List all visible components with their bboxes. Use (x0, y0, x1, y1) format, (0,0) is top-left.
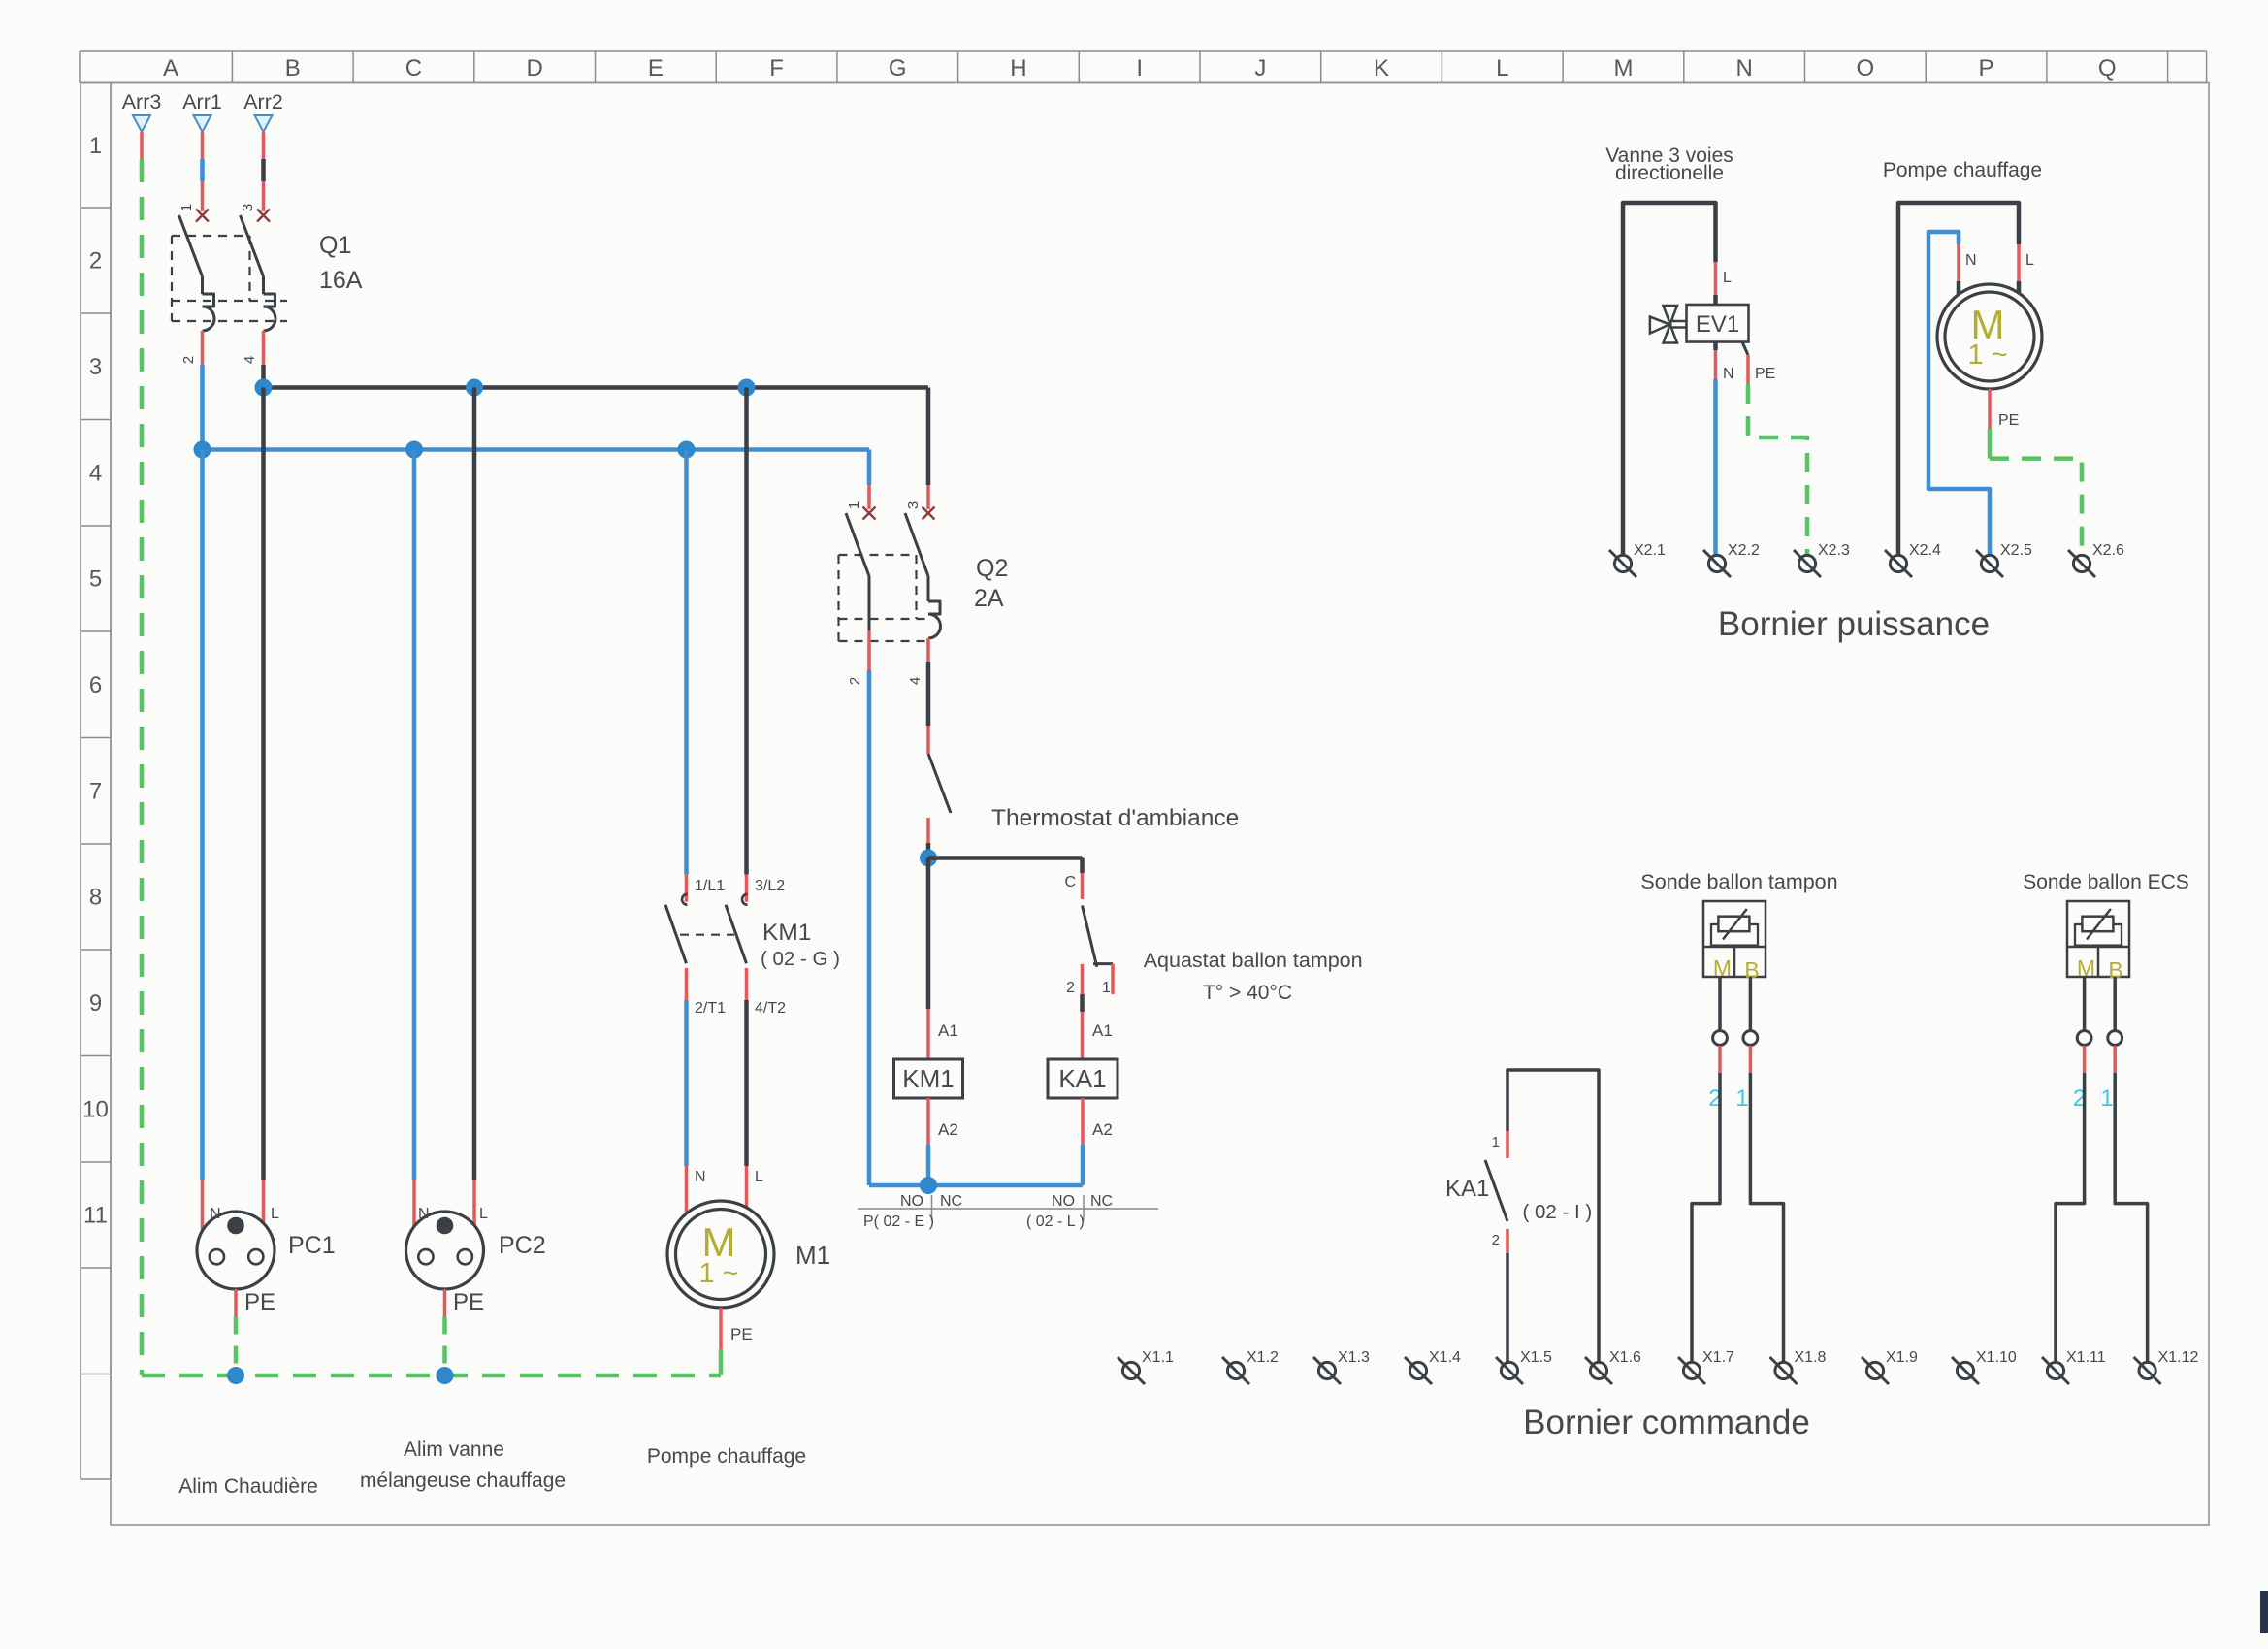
junction dot blue bus A (194, 441, 211, 458)
green PE bus bottom (142, 1374, 721, 1378)
terminal X2.4 (1885, 542, 1941, 577)
junction dot blue bus C (406, 441, 423, 458)
wire junction to aquastat C (928, 858, 1083, 900)
wire L drop to PC1 (261, 388, 266, 1231)
blue neutral bus (203, 447, 870, 452)
svg-text:L: L (1723, 270, 1732, 286)
svg-text:K: K (1374, 55, 1389, 81)
wire L drop to PC2 (472, 388, 477, 1227)
circuit breaker Q2 2A (839, 501, 1009, 685)
svg-text:1 ~: 1 ~ (698, 1258, 738, 1289)
wire Arr2 to Q1 pin 3 (262, 132, 266, 211)
wire Arr1 to Q1 pin 1 (201, 132, 205, 211)
wire X2.4 to pompe motor L (1898, 203, 2034, 555)
wire Q2 pole 4 to thermostat (926, 662, 931, 754)
wire KM1 4/T2 to M1 L (747, 1000, 764, 1209)
terminal X1.2 (1222, 1349, 1279, 1384)
svg-text:Arr1: Arr1 (182, 90, 222, 113)
svg-text:3: 3 (905, 501, 922, 509)
svg-text:3/L2: 3/L2 (755, 878, 785, 894)
svg-text:Sonde ballon ECS: Sonde ballon ECS (2023, 871, 2189, 893)
wire KM1 2/T1 to M1 N (687, 1000, 706, 1212)
contactor contact KM1 (02-G) (665, 878, 840, 1017)
svg-text:L: L (755, 1169, 763, 1185)
svg-text:PE: PE (244, 1289, 275, 1315)
wire pompe PE to X2.6 (1990, 389, 2082, 555)
svg-text:X1.1: X1.1 (1142, 1349, 1174, 1366)
svg-text:7: 7 (89, 778, 102, 804)
contact cross-reference table KM1 KA1 (858, 1193, 1158, 1230)
svg-text:NC: NC (1090, 1193, 1113, 1210)
terminal X2.3 (1794, 542, 1850, 577)
svg-text:3: 3 (240, 204, 256, 211)
svg-text:C: C (405, 55, 422, 81)
scan artifact dark corner (2260, 1591, 2268, 1633)
label Pompe chauffage top (1883, 159, 2042, 181)
svg-text:N: N (210, 1206, 221, 1222)
svg-text:16A: 16A (319, 267, 363, 294)
terminal X1.3 (1313, 1349, 1370, 1384)
svg-text:X2.6: X2.6 (2092, 542, 2124, 559)
svg-text:KM1: KM1 (902, 1064, 954, 1093)
svg-text:2: 2 (1066, 980, 1075, 996)
label Vanne 3 voies (1605, 145, 1733, 184)
blue control bus bottom (869, 1183, 1083, 1188)
svg-text:1: 1 (89, 133, 102, 159)
svg-text:N: N (695, 1169, 706, 1185)
svg-text:4: 4 (89, 460, 102, 486)
arrow Arr2 (243, 90, 283, 132)
wire blue bus to Q2 pin 1 (867, 450, 872, 510)
svg-text:X2.5: X2.5 (2000, 542, 2032, 559)
terminal X2.6 (2068, 542, 2124, 577)
motor pompe chauffage bornier (1937, 284, 2042, 389)
svg-text:2: 2 (847, 677, 863, 685)
terminal X1.9 (1862, 1349, 1918, 1384)
sensor sonde ballon ECS (2067, 901, 2129, 983)
wire black bus to Q2 pin 3 (926, 388, 931, 510)
svg-text:3: 3 (89, 354, 102, 380)
svg-text:X1.10: X1.10 (1976, 1349, 2017, 1366)
label Sonde ballon tampon (1640, 870, 1837, 893)
svg-text:PE: PE (1755, 366, 1775, 382)
coil KA1 (1048, 1059, 1118, 1098)
wire EV1 N to X2.2 (1716, 342, 1734, 556)
svg-text:M: M (2077, 955, 2095, 981)
thermostat d'ambiance contact (928, 754, 1239, 843)
terminal X1.10 (1952, 1349, 2017, 1384)
arrow Arr3 (122, 90, 162, 132)
relay contact KA1 (02-I) (1445, 1131, 1592, 1362)
svg-text:1 ~: 1 ~ (1967, 339, 2007, 371)
svg-text:T° > 40°C: T° > 40°C (1203, 982, 1292, 1004)
svg-text:Thermostat d'ambiance: Thermostat d'ambiance (991, 805, 1239, 831)
junction dot control bus (921, 1178, 937, 1194)
svg-text:X1.9: X1.9 (1886, 1349, 1918, 1366)
svg-text:PC1: PC1 (288, 1232, 336, 1259)
svg-text:PE: PE (453, 1289, 484, 1315)
svg-text:X1.12: X1.12 (2158, 1349, 2199, 1366)
svg-text:L: L (479, 1206, 488, 1222)
svg-text:A1: A1 (1092, 1021, 1113, 1040)
terminal X1.5 (1496, 1349, 1552, 1384)
svg-text:8: 8 (89, 885, 102, 911)
svg-text:L: L (2025, 252, 2034, 269)
svg-text:Arr2: Arr2 (243, 90, 283, 113)
svg-text:NC: NC (940, 1193, 962, 1210)
label Alim Chaudiere (178, 1475, 318, 1498)
label Pompe chauffage bottom (647, 1445, 806, 1468)
grid column header row A-Q (80, 51, 2207, 83)
svg-text:4/T2: 4/T2 (755, 1000, 786, 1017)
svg-text:X1.8: X1.8 (1795, 1349, 1827, 1366)
wire sonde ECS B to X1.12 (2100, 977, 2147, 1362)
junction dot black bus D (467, 379, 483, 396)
svg-text:M1: M1 (795, 1241, 830, 1270)
svg-text:KA1: KA1 (1445, 1176, 1489, 1202)
terminal X1.12 (2134, 1349, 2199, 1384)
svg-text:A2: A2 (1092, 1120, 1113, 1139)
terminal X2.5 (1976, 542, 2032, 577)
arrow Arr1 (182, 90, 222, 132)
wire PC2 PE drop (445, 1289, 485, 1375)
svg-text:1: 1 (178, 204, 195, 211)
svg-text:P: P (1979, 55, 1994, 81)
svg-text:G: G (889, 55, 907, 81)
junction dot PE PC2 (437, 1368, 453, 1384)
svg-text:Aquastat ballon tampon: Aquastat ballon tampon (1144, 949, 1363, 972)
label aquastat (1144, 949, 1363, 1004)
terminal X2.2 (1703, 542, 1760, 577)
svg-text:KA1: KA1 (1058, 1064, 1106, 1093)
svg-text:Q: Q (2098, 55, 2117, 81)
wire N drop to PC1 (200, 450, 205, 1231)
junction dot PE PC1 (228, 1368, 244, 1384)
svg-text:PE: PE (1998, 412, 2019, 429)
wire sonde tampon M to X1.7 (1692, 977, 1727, 1362)
svg-text:P( 02 - E ): P( 02 - E ) (863, 1213, 934, 1230)
svg-text:Sonde ballon tampon: Sonde ballon tampon (1640, 870, 1837, 893)
svg-text:X2.3: X2.3 (1818, 542, 1850, 559)
label Bornier commande (1523, 1404, 1810, 1441)
wire Q1 pole2 to black bus (261, 365, 266, 388)
svg-text:1: 1 (1492, 1134, 1500, 1150)
junction dot black bus F (738, 379, 755, 396)
terminal X1.4 (1405, 1349, 1461, 1384)
wire EV1 PE to X2.3 (1742, 342, 1807, 556)
wire sonde tampon B to X1.8 (1735, 977, 1783, 1362)
svg-text:( 02 - G ): ( 02 - G ) (761, 948, 840, 970)
grid row header column 1-11 (81, 83, 111, 1480)
wire KA1 contact bridge to X1.6 (1507, 1070, 1599, 1362)
svg-text:X2.4: X2.4 (1909, 542, 1941, 559)
svg-text:1: 1 (1102, 980, 1111, 996)
wire pompe motor N to X2.5 (1928, 232, 1990, 555)
svg-text:X1.2: X1.2 (1247, 1349, 1279, 1366)
svg-text:X1.4: X1.4 (1429, 1349, 1461, 1366)
svg-text:X1.5: X1.5 (1520, 1349, 1552, 1366)
wire junction to KM1 coil A1 (928, 858, 958, 1060)
svg-text:NO: NO (1052, 1193, 1075, 1210)
svg-text:I: I (1136, 55, 1143, 81)
svg-text:2A: 2A (974, 585, 1004, 612)
svg-text:H: H (1010, 55, 1026, 81)
motor M1 pompe chauffage (667, 1201, 830, 1308)
svg-text:X2.2: X2.2 (1728, 542, 1760, 559)
svg-text:2: 2 (1492, 1232, 1500, 1248)
svg-text:X1.11: X1.11 (2066, 1349, 2106, 1366)
svg-text:L: L (271, 1206, 279, 1222)
svg-text:Bornier puissance: Bornier puissance (1718, 605, 1990, 643)
wire KA1 coil A2 to blue bus (1083, 1098, 1113, 1185)
wire aquastat 2 to KA1 coil A1 (1083, 994, 1113, 1059)
wire KM1 coil A2 to blue bus (928, 1098, 958, 1185)
svg-text:1/L1: 1/L1 (695, 878, 725, 894)
wire black drop to KM1 3/L2 (744, 388, 749, 902)
svg-text:PE: PE (730, 1325, 753, 1343)
wire Q2 pole 2 blue drop to control bus (867, 670, 872, 1185)
svg-text:EV1: EV1 (1696, 311, 1739, 338)
terminal X1.1 (1118, 1349, 1174, 1384)
svg-text:6: 6 (89, 672, 102, 698)
black phase bus row3 (264, 385, 929, 390)
svg-text:N: N (1735, 55, 1752, 81)
svg-text:Pompe chauffage: Pompe chauffage (1883, 159, 2042, 181)
svg-text:4: 4 (907, 677, 923, 685)
svg-text:A1: A1 (938, 1021, 958, 1040)
svg-text:M: M (1713, 955, 1732, 981)
svg-text:Alim Chaudière: Alim Chaudière (178, 1475, 318, 1498)
svg-text:X1.7: X1.7 (1702, 1349, 1734, 1366)
wire blue drop to KM1 1/L1 (684, 450, 689, 902)
svg-text:A2: A2 (938, 1120, 958, 1139)
coil KM1 (894, 1059, 963, 1098)
svg-text:NO: NO (900, 1193, 923, 1210)
svg-text:1: 1 (2100, 1085, 2113, 1112)
svg-text:directionelle: directionelle (1615, 162, 1724, 184)
terminal X2.1 (1609, 542, 1666, 577)
wire PE Arr3 green dashed vertical (140, 132, 144, 1375)
svg-text:X1.6: X1.6 (1609, 1349, 1641, 1366)
svg-text:O: O (1857, 55, 1875, 81)
svg-text:X1.3: X1.3 (1338, 1349, 1370, 1366)
svg-text:Q1: Q1 (319, 232, 351, 259)
svg-text:Q2: Q2 (976, 555, 1008, 582)
aquastat ballon tampon contact (1066, 906, 1113, 997)
svg-text:N: N (1965, 252, 1977, 269)
label Bornier puissance (1718, 605, 1990, 643)
svg-text:A: A (163, 55, 178, 81)
svg-text:X2.1: X2.1 (1634, 542, 1666, 559)
svg-text:2: 2 (180, 356, 197, 364)
svg-text:Pompe chauffage: Pompe chauffage (647, 1445, 806, 1468)
label melangeuse chauffage (360, 1470, 566, 1492)
wire sonde ECS M to X1.11 (2056, 977, 2091, 1362)
socket outlet PC2 (406, 1206, 546, 1289)
svg-text:KM1: KM1 (762, 920, 811, 946)
terminal X1.8 (1770, 1349, 1827, 1384)
junction dot black bus B (255, 379, 272, 396)
svg-text:N: N (1723, 366, 1734, 382)
svg-text:PC2: PC2 (499, 1232, 546, 1259)
terminal X1.6 (1585, 1349, 1641, 1384)
svg-text:1: 1 (1735, 1085, 1748, 1112)
svg-text:( 02 - I ): ( 02 - I ) (1523, 1201, 1593, 1223)
wire M1 PE drop (721, 1308, 753, 1375)
junction dot blue bus E (678, 441, 695, 458)
svg-text:mélangeuse chauffage: mélangeuse chauffage (360, 1470, 566, 1492)
svg-text:1: 1 (846, 501, 862, 509)
svg-text:Arr3: Arr3 (122, 90, 162, 113)
circuit breaker Q1 16A (172, 204, 363, 365)
svg-text:9: 9 (89, 990, 102, 1017)
svg-text:5: 5 (89, 566, 102, 593)
socket outlet PC1 (197, 1206, 336, 1289)
terminal X1.11 (2042, 1349, 2106, 1384)
svg-text:( 02 - L ): ( 02 - L ) (1026, 1213, 1085, 1230)
svg-text:4: 4 (242, 356, 258, 364)
svg-text:N: N (418, 1206, 430, 1222)
svg-text:J: J (1254, 55, 1266, 81)
svg-text:C: C (1064, 874, 1076, 890)
svg-text:Alim vanne: Alim vanne (404, 1439, 504, 1461)
sensor sonde ballon tampon (1703, 901, 1766, 983)
wire PC1 PE drop (236, 1289, 275, 1375)
junction dot control branch (921, 850, 937, 866)
valve EV1 vanne 3 voies (1650, 305, 1749, 343)
svg-text:B: B (285, 55, 301, 81)
svg-text:F: F (769, 55, 784, 81)
wire N drop to PC2 (412, 450, 417, 1227)
svg-text:2: 2 (89, 248, 102, 275)
label Sonde ballon ECS (2023, 871, 2189, 893)
svg-text:D: D (526, 55, 542, 81)
wire thermostat to junction (926, 843, 931, 858)
wire Q1 pole1 to blue bus (200, 365, 205, 450)
svg-text:E: E (648, 55, 664, 81)
wire X2.1 to EV1 L (1623, 203, 1732, 555)
svg-text:Bornier commande: Bornier commande (1523, 1404, 1810, 1441)
svg-text:10: 10 (82, 1096, 109, 1122)
svg-text:L: L (1496, 55, 1508, 81)
svg-text:2/T1: 2/T1 (695, 1000, 726, 1017)
svg-text:11: 11 (83, 1203, 108, 1229)
svg-text:M: M (1613, 55, 1633, 81)
label Alim vanne (404, 1439, 504, 1461)
terminal X1.7 (1678, 1349, 1734, 1384)
